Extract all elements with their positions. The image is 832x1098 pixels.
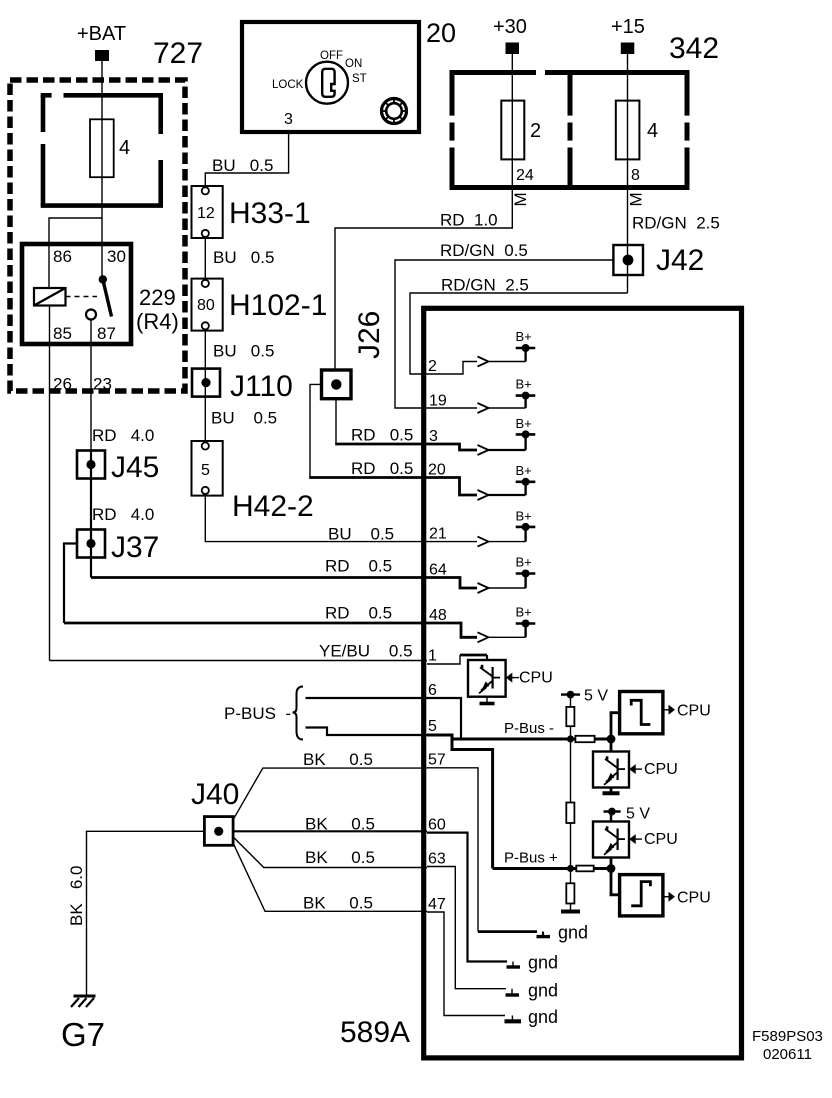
svg-text:BK 0.5: BK 0.5 <box>303 750 373 769</box>
optocoupler U2 <box>593 752 629 788</box>
fuse block H42-2 <box>192 441 223 496</box>
svg-text:J110: J110 <box>230 370 293 403</box>
node +15 terminal square <box>621 43 635 55</box>
CPU A arrow <box>663 703 711 720</box>
svg-text:LOCK: LOCK <box>272 79 304 91</box>
wire pin 63 to gnd <box>427 867 506 989</box>
junction dot P-Bus+ right <box>607 864 616 873</box>
wire junction down to optocoupler U2 <box>610 739 613 752</box>
wire pin 57 to gnd <box>427 768 537 932</box>
optocoupler U3 <box>593 822 629 858</box>
wire U3 down to P-Bus+ <box>610 858 613 869</box>
wire pin 1 to optocoupler U1 <box>427 655 460 664</box>
svg-text:P-Bus -: P-Bus - <box>504 720 554 737</box>
svg-text:229: 229 <box>139 285 176 310</box>
wire from +BAT down through fuse to relay contact 30 <box>101 61 103 279</box>
svg-text:RD 1.0: RD 1.0 <box>440 211 498 230</box>
fuse 2 <box>501 101 524 160</box>
joint connector J42 <box>613 245 643 275</box>
joint connector J45 <box>77 451 105 479</box>
wire +30 through fuse 2 to RD 1.0 <box>335 54 512 370</box>
wire J26 to pin 3 <box>335 399 427 444</box>
svg-text:2: 2 <box>530 120 541 142</box>
joint connector J26 <box>322 370 352 399</box>
svg-text:2: 2 <box>428 358 437 375</box>
gnd symbol 2 <box>507 953 559 973</box>
svg-text:J45: J45 <box>111 451 159 484</box>
svg-text:B+: B+ <box>516 416 532 431</box>
svg-text:H102-1: H102-1 <box>229 289 327 322</box>
svg-text:5: 5 <box>428 718 437 735</box>
svg-text:RD 0.5: RD 0.5 <box>351 426 413 445</box>
wire BK 0.5 J40 to pin 57 <box>233 768 427 820</box>
svg-text:20: 20 <box>428 462 446 479</box>
svg-text:CPU: CPU <box>519 670 553 687</box>
relay 229 (R4) box <box>22 244 131 344</box>
svg-text:20: 20 <box>426 18 456 48</box>
waveform CPU box B <box>620 875 663 916</box>
wire BK 0.5 J40 to pin 47 <box>233 843 427 911</box>
wire pin 60 to gnd <box>427 833 507 962</box>
relay contact 30 dot <box>99 275 107 283</box>
wire junction down to waveform CPU B <box>611 869 620 895</box>
fuse block H33-1 <box>192 186 223 238</box>
wire BK 0.5 J40 to pin 63 <box>233 837 427 868</box>
wire +15 through fuse 4 to J42 and on <box>627 54 629 293</box>
svg-text:63: 63 <box>428 851 446 868</box>
svg-text:B+: B+ <box>516 554 532 569</box>
resistor R3 <box>566 803 574 824</box>
svg-text:020611: 020611 <box>763 1046 812 1063</box>
optocoupler U1 <box>468 660 506 697</box>
svg-text:RD 4.0: RD 4.0 <box>92 426 154 445</box>
resistor R2 horizontal <box>575 736 594 742</box>
svg-text:BU 0.5: BU 0.5 <box>328 525 394 544</box>
svg-text:4: 4 <box>647 120 658 142</box>
svg-text:12: 12 <box>197 205 215 222</box>
wire ignition 3 to H33-1 <box>205 132 288 186</box>
svg-text:B+: B+ <box>516 463 532 478</box>
svg-text:727: 727 <box>153 37 203 70</box>
wire junction branch to relay coil 86 <box>49 218 102 288</box>
fuse 4 (342) <box>616 101 640 160</box>
wire J26 left to pin 20 <box>309 384 427 477</box>
svg-text:H42-2: H42-2 <box>232 490 314 523</box>
svg-text:RD 0.5: RD 0.5 <box>351 459 413 478</box>
wire coil 85 down to pin 26 and on to YE/BU <box>49 306 51 661</box>
gnd symbol 1 <box>537 923 589 943</box>
fuse box 342 outline <box>450 70 690 188</box>
svg-text:5 V: 5 V <box>626 806 650 823</box>
svg-text:5: 5 <box>201 462 210 479</box>
svg-text:P-BUS -: P-BUS - <box>224 704 291 723</box>
U2 CPU arrow <box>629 761 678 778</box>
B+ row pin 19 <box>427 377 535 413</box>
svg-text:gnd: gnd <box>528 953 558 973</box>
relay coil-contact dashed link <box>66 296 98 298</box>
P-BUS brace <box>293 687 304 740</box>
dashed box 727 <box>10 80 185 391</box>
svg-text:(R4): (R4) <box>136 309 179 334</box>
svg-text:BK 0.5: BK 0.5 <box>303 894 373 913</box>
svg-text:RD/GN 2.5: RD/GN 2.5 <box>441 275 529 294</box>
wire P-BUS to pin 6 <box>306 697 428 699</box>
svg-text:87: 87 <box>97 324 116 343</box>
ignition switch box 20 <box>242 22 419 132</box>
svg-text:1: 1 <box>428 647 437 664</box>
svg-text:B+: B+ <box>516 329 532 344</box>
B+ row pin 20 <box>427 463 535 500</box>
svg-text:589A: 589A <box>340 1016 410 1049</box>
svg-text:57: 57 <box>428 752 446 769</box>
svg-text:BU 0.5: BU 0.5 <box>211 409 277 428</box>
svg-text:BU 0.5: BU 0.5 <box>212 156 273 175</box>
svg-text:+15: +15 <box>611 16 645 38</box>
CPU B arrow <box>663 890 711 907</box>
svg-text:F589PS03: F589PS03 <box>752 1028 823 1045</box>
B+ row pin 3 <box>427 416 535 455</box>
svg-text:21: 21 <box>429 526 447 543</box>
svg-text:RD 0.5: RD 0.5 <box>325 557 392 576</box>
wire trunk RD 4.0 from relay 87/23 through J45,J37 to pin 64 <box>91 450 427 578</box>
svg-text:CPU: CPU <box>677 890 711 907</box>
wire RD/GN 2.5 from J42 to pin 2 <box>410 293 628 374</box>
wire pin 6 to P-Bus- <box>427 698 461 739</box>
svg-text:P-Bus +: P-Bus + <box>504 849 558 866</box>
wire pin 5 jog to P-Bus+ feed <box>427 735 493 869</box>
svg-text:4: 4 <box>119 137 130 159</box>
svg-text:B+: B+ <box>516 508 532 523</box>
B+ row pin 48 <box>427 605 535 643</box>
node +BAT terminal square <box>95 50 109 61</box>
svg-text:OFF: OFF <box>320 50 343 62</box>
wire 87 down to trunk <box>90 320 92 451</box>
B+ row pin 2 <box>427 329 535 374</box>
svg-text:342: 342 <box>669 32 719 65</box>
wire R5 chain to ground <box>570 869 572 884</box>
wire R3 to P-Bus+ <box>570 823 572 869</box>
wire BK 0.5 J40 to pin 60 <box>233 830 427 832</box>
svg-text:M: M <box>511 192 530 206</box>
relay coil <box>34 288 66 306</box>
svg-text:48: 48 <box>429 607 447 624</box>
svg-text:G7: G7 <box>61 1016 105 1053</box>
P-Bus minus line <box>452 738 611 741</box>
fuse holder box in 727 <box>41 95 163 205</box>
joint connector J110 <box>192 369 220 397</box>
P-Bus plus line <box>493 867 611 870</box>
gnd symbol 4 <box>505 1007 559 1027</box>
joint connector J37 <box>77 530 105 558</box>
svg-text:5 V: 5 V <box>584 688 608 705</box>
B+ row pin 21 <box>427 508 535 546</box>
svg-text:gnd: gnd <box>528 981 558 1001</box>
ignition emblem rings <box>382 99 407 124</box>
resistor R4 horizontal <box>576 866 593 872</box>
svg-text:85: 85 <box>53 324 72 343</box>
5V terminal upper <box>561 688 608 707</box>
5V terminal lower <box>604 806 651 823</box>
wire P-BUS to pin 5 <box>306 728 428 736</box>
junction dot P-Bus+ left <box>567 865 574 872</box>
svg-text:ON: ON <box>345 58 362 70</box>
svg-text:60: 60 <box>428 817 446 834</box>
svg-text:J40: J40 <box>191 778 239 811</box>
svg-text:3: 3 <box>284 111 293 128</box>
wire J37 left branch to pin 48 <box>64 544 427 624</box>
svg-text:BU 0.5: BU 0.5 <box>213 342 274 361</box>
svg-text:J37: J37 <box>111 531 159 564</box>
wire RD/GN 0.5 from J42 to pin 19 <box>395 260 613 408</box>
svg-text:BU 0.5: BU 0.5 <box>213 248 274 267</box>
ground below R5 <box>561 904 580 912</box>
gnd symbol 3 <box>506 981 559 1001</box>
wire 26 YE/BU to pin 1 <box>50 660 428 662</box>
svg-text:19: 19 <box>429 393 447 410</box>
svg-text:26: 26 <box>53 375 72 394</box>
svg-text:64: 64 <box>429 562 447 579</box>
B+ row pin 64 <box>427 554 535 593</box>
svg-text:RD/GN 0.5: RD/GN 0.5 <box>440 241 528 260</box>
svg-text:RD 4.0: RD 4.0 <box>92 505 154 524</box>
svg-text:ST: ST <box>352 73 367 85</box>
svg-text:J42: J42 <box>656 244 704 277</box>
U2 ground <box>603 788 620 794</box>
svg-text:J26: J26 <box>353 311 386 359</box>
svg-text:30: 30 <box>107 247 126 266</box>
chassis ground G7 symbol <box>71 996 96 1007</box>
svg-text:M: M <box>627 192 646 206</box>
svg-text:B+: B+ <box>516 377 532 392</box>
ECU box 589A <box>424 308 742 1058</box>
waveform CPU box A <box>620 692 663 734</box>
relay terminal 87 circle <box>86 310 96 320</box>
svg-text:+30: +30 <box>493 16 527 38</box>
wire junction up to waveform CPU A <box>611 713 620 739</box>
junction dot P-Bus- left <box>567 735 574 742</box>
svg-text:gnd: gnd <box>528 1007 558 1027</box>
svg-text:H33-1: H33-1 <box>229 197 311 230</box>
svg-text:YE/BU 0.5: YE/BU 0.5 <box>319 642 413 661</box>
U1 ground <box>480 697 495 704</box>
svg-text:23: 23 <box>93 375 112 394</box>
svg-text:CPU: CPU <box>644 761 678 778</box>
svg-text:6: 6 <box>428 682 437 699</box>
junction dot P-Bus- right <box>607 735 616 744</box>
node +30 terminal square <box>506 43 520 55</box>
key ring circle <box>306 62 348 104</box>
svg-text:gnd: gnd <box>558 923 588 943</box>
wire R1 to P-Bus- <box>570 726 572 739</box>
wire P-Bus- junction down resistor chain <box>570 739 572 803</box>
svg-text:8: 8 <box>631 167 640 184</box>
svg-text:CPU: CPU <box>677 703 711 720</box>
svg-text:BK 6.0: BK 6.0 <box>67 866 86 926</box>
BU chain trunk wire through H33-1,H102-1,J110,H42-2 to pin 21 <box>205 186 427 542</box>
key shape <box>322 69 334 97</box>
svg-text:47: 47 <box>428 896 446 913</box>
svg-text:BK 0.5: BK 0.5 <box>305 815 375 834</box>
svg-text:BK 0.5: BK 0.5 <box>305 848 375 867</box>
resistor R1 <box>566 707 574 726</box>
wire J40 left to ground G7 <box>87 831 205 994</box>
svg-text:RD 0.5: RD 0.5 <box>325 604 392 623</box>
fuse 4 <box>90 119 114 177</box>
relay switch blade <box>103 279 112 316</box>
svg-text:+BAT: +BAT <box>77 23 126 45</box>
joint connector J40 <box>204 817 233 846</box>
wire pin 47 to gnd <box>427 912 505 1016</box>
U1 CPU arrow <box>506 670 553 687</box>
svg-text:B+: B+ <box>516 605 532 620</box>
svg-text:80: 80 <box>197 297 215 314</box>
svg-text:RD/GN 2.5: RD/GN 2.5 <box>632 214 720 233</box>
resistor R5 <box>566 883 574 903</box>
svg-text:24: 24 <box>516 167 534 184</box>
fuse block H102-1 <box>192 279 223 331</box>
svg-text:CPU: CPU <box>644 831 678 848</box>
svg-text:86: 86 <box>53 247 72 266</box>
U3 CPU arrow <box>629 831 678 848</box>
svg-text:3: 3 <box>429 428 438 445</box>
